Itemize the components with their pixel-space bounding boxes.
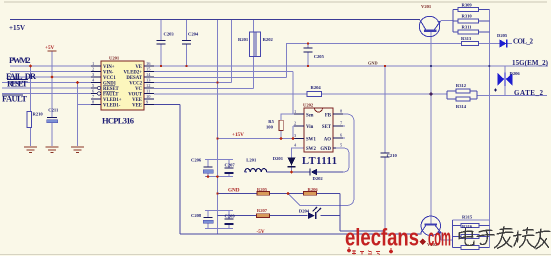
- svg-text:+5V: +5V: [45, 45, 55, 51]
- svg-text:VCC2: VCC2: [129, 82, 142, 87]
- svg-text:VEE: VEE: [132, 98, 142, 103]
- svg-text:R202: R202: [263, 37, 274, 42]
- svg-text:Vin: Vin: [306, 125, 314, 130]
- svg-text:1: 1: [294, 109, 296, 114]
- svg-text:GND: GND: [320, 147, 331, 152]
- svg-text:100: 100: [266, 125, 274, 130]
- svg-text:C203: C203: [164, 31, 175, 36]
- svg-text:SET: SET: [322, 125, 332, 130]
- svg-text:R5: R5: [268, 119, 274, 124]
- svg-text:-5V: -5V: [257, 229, 265, 235]
- svg-text:com: com: [428, 225, 451, 252]
- svg-text:VE: VE: [135, 65, 142, 70]
- svg-text:HCPL316: HCPL316: [102, 116, 134, 126]
- svg-text:FB: FB: [325, 114, 332, 119]
- svg-text:C204: C204: [188, 31, 199, 36]
- svg-text:2: 2: [92, 67, 94, 72]
- svg-text:2: 2: [294, 121, 296, 126]
- svg-text:DESAT: DESAT: [126, 76, 142, 81]
- svg-text:PWM2: PWM2: [9, 55, 31, 65]
- svg-text:COL_2: COL_2: [513, 37, 534, 45]
- svg-text:R206: R206: [308, 187, 319, 192]
- svg-text:VLED1-: VLED1-: [103, 104, 121, 109]
- svg-text:R205: R205: [257, 187, 268, 192]
- svg-text:AO: AO: [324, 138, 331, 143]
- svg-text:R315: R315: [462, 215, 473, 220]
- svg-text:U202: U202: [303, 103, 314, 108]
- svg-text:U201: U201: [109, 56, 120, 61]
- svg-text:D201: D201: [273, 156, 284, 161]
- svg-text:D202: D202: [313, 176, 324, 181]
- svg-text:15G(EM_2): 15G(EM_2): [512, 59, 549, 67]
- svg-text:VIN+: VIN+: [103, 65, 115, 70]
- svg-text:GATE_2: GATE_2: [514, 89, 544, 97]
- svg-text:L201: L201: [246, 158, 257, 163]
- svg-text:R311: R311: [462, 25, 473, 30]
- svg-text:C207: C207: [225, 163, 236, 168]
- svg-text:R313: R313: [461, 36, 472, 41]
- svg-text:12: 12: [146, 83, 150, 88]
- svg-text:GND: GND: [368, 61, 378, 66]
- svg-text:C210: C210: [387, 153, 398, 158]
- svg-text:elecfans: elecfans: [345, 225, 419, 252]
- svg-text:VIN-: VIN-: [103, 71, 114, 76]
- svg-text:1: 1: [92, 61, 94, 66]
- svg-text:R210: R210: [33, 112, 44, 117]
- svg-text:VLED2+: VLED2+: [124, 71, 143, 76]
- svg-text:+15V: +15V: [9, 24, 25, 32]
- svg-text:Sen: Sen: [306, 114, 314, 119]
- svg-text:V201: V201: [421, 4, 432, 9]
- svg-text:VEE: VEE: [132, 104, 142, 109]
- svg-text:R309: R309: [462, 2, 473, 7]
- svg-text:SW1: SW1: [306, 138, 316, 143]
- svg-text:+15V: +15V: [232, 132, 244, 138]
- svg-text:SW2: SW2: [306, 147, 316, 152]
- svg-text:R310: R310: [462, 14, 473, 19]
- svg-text:VOUT: VOUT: [128, 93, 143, 98]
- svg-text:R316: R316: [462, 224, 473, 229]
- svg-text:C206: C206: [191, 158, 202, 163]
- svg-text:LT1111: LT1111: [302, 156, 337, 167]
- svg-text:C209: C209: [225, 214, 236, 219]
- svg-text:D205: D205: [497, 33, 508, 38]
- svg-text:D206: D206: [510, 71, 521, 76]
- svg-text:VCC1: VCC1: [103, 76, 116, 81]
- svg-text:R314: R314: [456, 104, 467, 109]
- svg-text:R207: R207: [257, 208, 268, 213]
- svg-text:D204: D204: [299, 209, 310, 214]
- svg-text:C208: C208: [191, 213, 202, 218]
- svg-text:VC: VC: [135, 87, 142, 92]
- svg-text:R312: R312: [456, 83, 467, 88]
- svg-text:R204: R204: [311, 85, 322, 90]
- svg-text:C211: C211: [48, 108, 59, 113]
- svg-text:FAULT: FAULT: [103, 93, 119, 98]
- svg-text:GND: GND: [228, 187, 240, 193]
- svg-text:11: 11: [146, 89, 150, 94]
- svg-text:VLED1+: VLED1+: [103, 98, 122, 103]
- svg-text:C205: C205: [314, 54, 325, 59]
- svg-text:R201: R201: [238, 37, 249, 42]
